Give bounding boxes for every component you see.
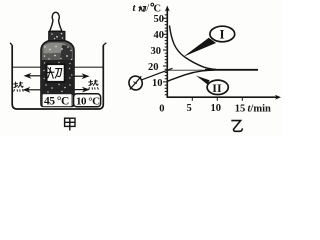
svg-text:45 °C: 45 °C (44, 96, 69, 108)
baby bottle nipple (50, 12, 62, 31)
10°C label box (74, 94, 101, 107)
label 甲 (jiǎ) below beaker (65, 118, 75, 130)
degree-C glyph of title (151, 3, 154, 6)
callout ellipse II (207, 80, 228, 94)
svg-text:5: 5 (187, 103, 192, 114)
x axis arrowhead (275, 95, 281, 100)
svg-text:15: 15 (235, 104, 246, 115)
y axis labels (148, 14, 164, 89)
x axis (167, 96, 278, 98)
bottle body (41, 41, 74, 107)
svg-text:50: 50 (154, 14, 165, 25)
pointer line from small callout to axis (141, 68, 173, 80)
small callout ellipse at axis (final temp) (127, 74, 144, 91)
svg-text:10: 10 (152, 78, 163, 89)
svg-text:I: I (220, 27, 225, 42)
left heat arrows (pointing left) (24, 74, 41, 91)
water surface line (13, 66, 103, 68)
milk upper texture band (44, 43, 67, 54)
character 热 (heat), left (14, 82, 23, 91)
label 乙 (yǐ) below graph (231, 121, 242, 132)
svg-text:/: / (146, 3, 149, 14)
45°C label box (white on black bottle bottom) (43, 94, 72, 106)
dark zone around/below milk label (42, 60, 73, 95)
beaker (water bath container) (10, 43, 106, 109)
svg-text:30: 30 (151, 46, 162, 57)
x axis ticks (192, 98, 242, 101)
final temperature horizontal line (faint left part) (167, 69, 207, 71)
character 热 (heat), right (89, 80, 98, 89)
final temperature horizontal line (merged thick part) (205, 69, 258, 71)
tail of callout II (196, 76, 210, 85)
x axis labels (187, 103, 246, 115)
character 奶 (milk), drawn strokes (47, 68, 61, 79)
svg-text:10: 10 (211, 103, 222, 114)
subscript 奶 tiny glyph (139, 6, 146, 12)
bottle cap band (dark, speckled) (49, 31, 65, 40)
right heat arrows (pointing right) (74, 75, 88, 92)
callout ellipse I (210, 26, 235, 42)
speckles on bottle body (43, 46, 72, 80)
svg-text:t/min: t/min (248, 104, 272, 115)
svg-text:10 °C: 10 °C (76, 95, 100, 107)
darker patch right of shoulder (60, 45, 72, 60)
svg-text:0: 0 (159, 104, 164, 115)
y axis ticks (major + minor) (163, 15, 167, 95)
svg-text:II: II (212, 81, 222, 95)
y axis (166, 10, 168, 99)
curve II (water warming from 10°C) (168, 70, 215, 81)
curve I (milk cooling from 45°C) (170, 26, 217, 70)
tail of callout I (183, 38, 216, 57)
svg-text:40: 40 (154, 30, 165, 41)
y axis arrowhead (165, 6, 170, 12)
svg-text:20: 20 (148, 62, 159, 73)
svg-text:C: C (154, 3, 162, 14)
milk label box (奶) (47, 64, 65, 82)
